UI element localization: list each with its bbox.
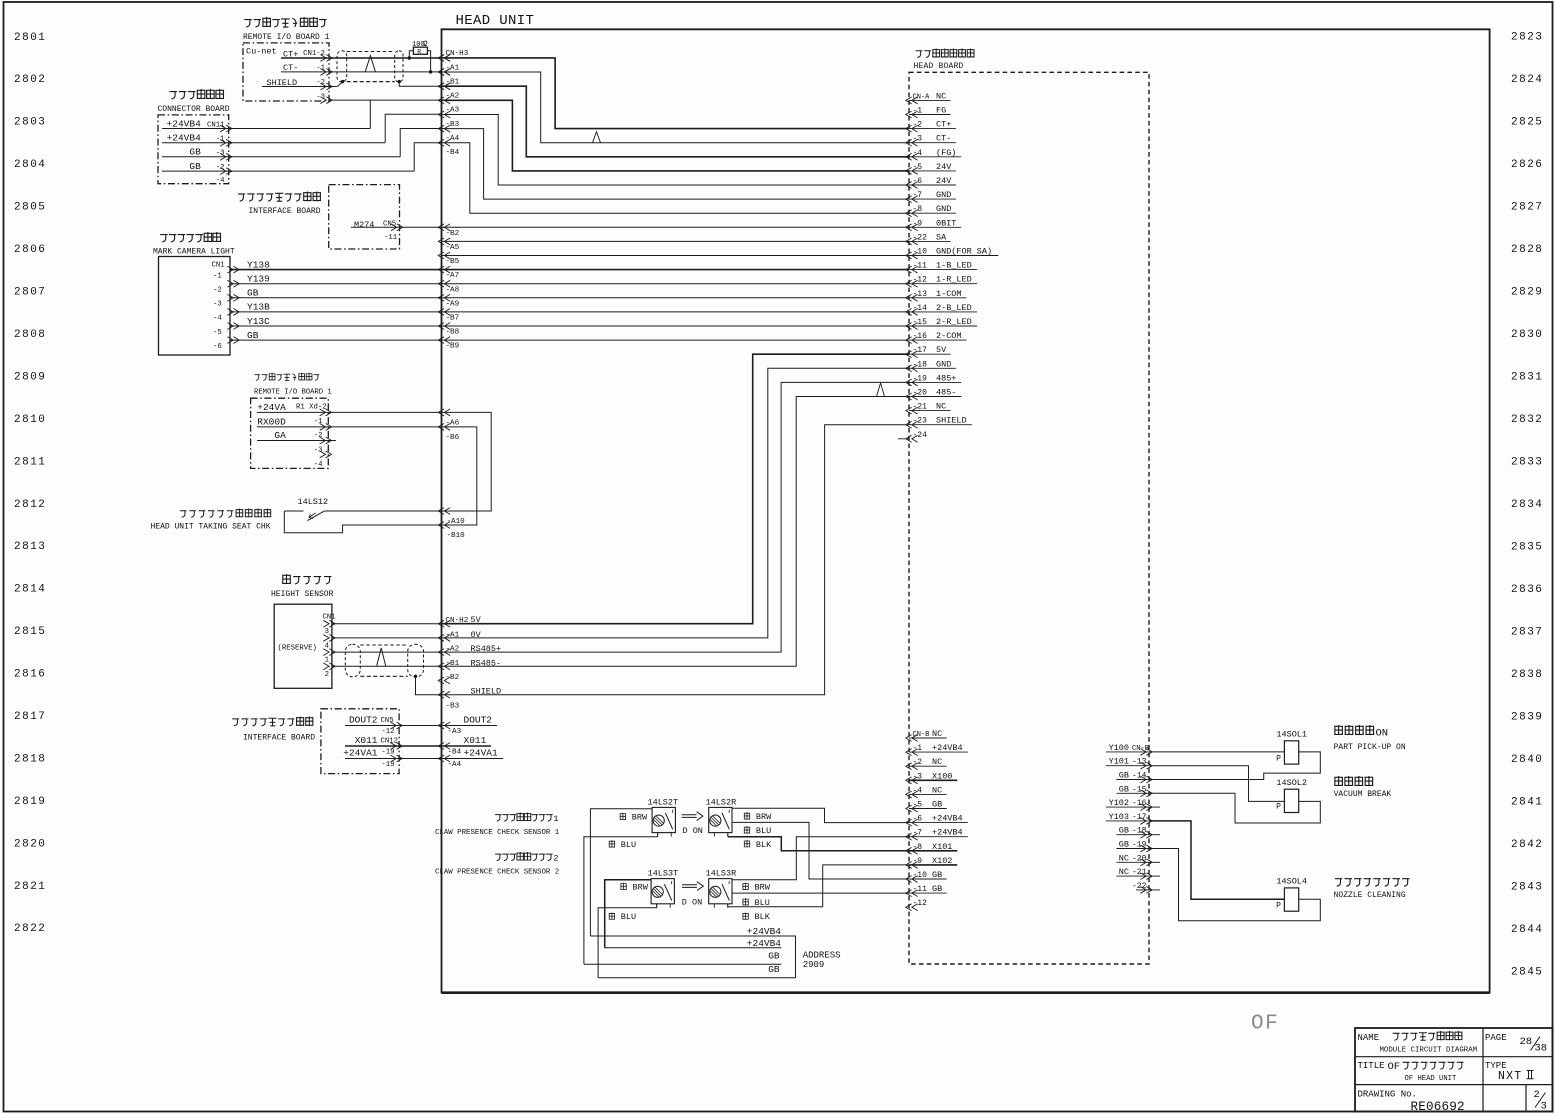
svg-text:-B6: -B6 <box>446 434 460 442</box>
svg-text:0BIT: 0BIT <box>936 218 956 228</box>
svg-text:CN1: CN1 <box>212 261 226 269</box>
connector CN-B pin rows (left side of head board) <box>906 735 918 742</box>
svg-text:NXT: NXT <box>1498 1070 1522 1083</box>
svg-text:2835: 2835 <box>1511 541 1543 553</box>
svg-text:+24VA1: +24VA1 <box>464 748 499 759</box>
svg-text:P: P <box>1276 803 1281 812</box>
svg-text:14LS2R: 14LS2R <box>706 797 737 807</box>
svg-text:X011: X011 <box>464 735 487 746</box>
svg-text:GA: GA <box>274 430 286 441</box>
height sensor pin 1 wire <box>332 651 442 653</box>
svg-text:BLU: BLU <box>621 912 636 922</box>
wire-cross hop on CT- run <box>593 132 601 143</box>
svg-text:CLAW PRESENCE CHECK SENSOR 1: CLAW PRESENCE CHECK SENSOR 1 <box>435 829 560 837</box>
left margin grid numbers 2801-2822 <box>14 32 46 935</box>
REMOTE I/O BOARD 1 (middle) labels <box>254 375 260 381</box>
connector CN-B pin rows (right side of head board) <box>1140 749 1152 756</box>
svg-text:BLK: BLK <box>756 840 772 850</box>
svg-text:GB: GB <box>1119 826 1129 836</box>
stub chevron -B2 <box>438 677 450 684</box>
REMOTE I/O BOARD 1 (top) labels <box>244 20 252 28</box>
svg-text:2803: 2803 <box>14 117 46 129</box>
wire 14LS2R BLK to CN-B -8 X101 <box>727 833 729 837</box>
svg-text:2831: 2831 <box>1511 371 1543 383</box>
svg-text:2839: 2839 <box>1511 711 1543 723</box>
svg-text:-A3: -A3 <box>446 107 460 115</box>
wire M274 to CN-A 0BIT <box>442 226 910 228</box>
svg-text:GB: GB <box>1119 784 1129 794</box>
svg-text:BLU: BLU <box>756 826 771 836</box>
svg-text:DOUT2: DOUT2 <box>464 715 493 726</box>
INTERFACE BOARD (upper) labels <box>238 194 245 201</box>
svg-text:2809: 2809 <box>14 371 46 383</box>
svg-text:-2: -2 <box>213 287 222 295</box>
twist crossover mark <box>377 648 386 666</box>
svg-text:CN-H3: CN-H3 <box>446 50 469 58</box>
svg-text:-A2: -A2 <box>446 93 460 101</box>
svg-text:GND: GND <box>936 359 951 369</box>
svg-text:PAGE: PAGE <box>1485 1033 1507 1043</box>
height sensor pin 2 wire <box>332 665 442 667</box>
height sensor pin 3 wire <box>332 623 442 625</box>
mark camera light box <box>159 257 231 356</box>
wire 14LS3R BRW to CN-B -7 <box>732 837 909 880</box>
svg-text:2838: 2838 <box>1511 669 1543 681</box>
svg-text:+24VB4: +24VB4 <box>932 828 963 838</box>
solenoid 14SOL1 body <box>1284 741 1298 764</box>
svg-text:+24VB4: +24VB4 <box>932 814 963 824</box>
svg-text:X011: X011 <box>355 735 378 746</box>
svg-text:+24VB4: +24VB4 <box>167 118 202 129</box>
svg-text:2: 2 <box>1534 1089 1540 1101</box>
svg-text:-12: -12 <box>913 899 928 908</box>
svg-text:D ON: D ON <box>683 826 703 836</box>
svg-text:24V: 24V <box>936 162 952 172</box>
svg-text:2833: 2833 <box>1511 456 1543 468</box>
svg-text:DOUT2: DOUT2 <box>349 715 378 726</box>
svg-text:2-COM: 2-COM <box>936 331 962 341</box>
svg-text:NC: NC <box>936 91 946 101</box>
remote I/O board (middle) dash-dot box <box>251 398 329 468</box>
svg-text:RS485+: RS485+ <box>471 644 502 654</box>
svg-text:HEAD UNIT: HEAD UNIT <box>456 13 535 29</box>
height sensor pin 4 wire <box>332 637 442 639</box>
address bracket <box>783 936 796 978</box>
svg-text:BRW: BRW <box>756 812 772 822</box>
part pick-up on labels <box>1334 725 1343 735</box>
connector board dash-dot box <box>158 115 229 184</box>
svg-text:GND(FOR SA): GND(FOR SA) <box>936 247 992 257</box>
wire SA row <box>442 240 910 242</box>
shield wire to head unit -B1 <box>399 82 441 86</box>
svg-text:HEAD BOARD: HEAD BOARD <box>914 62 964 71</box>
svg-text:-3: -3 <box>213 301 222 309</box>
svg-text:2817: 2817 <box>14 711 46 723</box>
svg-text:CT+: CT+ <box>936 120 951 130</box>
svg-text:-B7: -B7 <box>446 315 460 323</box>
14LS2T BRW label <box>620 813 626 820</box>
svg-text:HEAD UNIT TAKING SEAT CHK: HEAD UNIT TAKING SEAT CHK <box>151 523 271 532</box>
14LS2R BLK label <box>744 840 750 847</box>
svg-text:2837: 2837 <box>1511 626 1543 638</box>
svg-text:2-B_LED: 2-B_LED <box>936 303 972 313</box>
title block frame <box>1355 1028 1553 1112</box>
svg-text:2827: 2827 <box>1511 201 1543 213</box>
svg-text:2843: 2843 <box>1511 881 1543 893</box>
wire Y101 to 14SOL2 <box>1149 766 1284 802</box>
svg-text:-2: -2 <box>314 432 323 440</box>
svg-text:Y138: Y138 <box>247 259 270 270</box>
svg-text:-B4: -B4 <box>446 149 460 157</box>
solenoid 14SOL4 body <box>1284 888 1298 911</box>
svg-text:GND: GND <box>936 190 951 200</box>
svg-text:VACUUM BREAK: VACUUM BREAK <box>1334 790 1392 799</box>
svg-text:DRAWING No.: DRAWING No. <box>1358 1090 1417 1100</box>
svg-text:1: 1 <box>553 814 558 824</box>
svg-text:485-: 485- <box>936 388 956 398</box>
svg-text:FG: FG <box>936 106 946 116</box>
svg-text:GB: GB <box>247 330 259 341</box>
svg-text:2816: 2816 <box>14 669 46 681</box>
svg-text:SHIELD: SHIELD <box>936 416 967 426</box>
wire-cross hop on 485- run <box>877 383 885 397</box>
wire 14LS3R BLU to CN-B -11 <box>732 892 909 894</box>
claw presence check sensor 1 labels <box>495 815 501 821</box>
svg-text:M274: M274 <box>354 220 374 230</box>
svg-text:2814: 2814 <box>14 584 46 596</box>
svg-text:TITLE: TITLE <box>1358 1061 1385 1071</box>
wires CN-H3 group to CN-A (nested elbows) <box>442 58 910 129</box>
wire 14SOL2 return to GB -15 <box>1149 793 1320 823</box>
wire +24VB4 to head unit <box>370 100 441 128</box>
svg-text:Y101: Y101 <box>1109 757 1129 767</box>
svg-text:Cu-net: Cu-net <box>246 47 277 57</box>
HEAD UNIT enclosure box <box>442 29 1490 992</box>
svg-text:-24: -24 <box>913 431 928 440</box>
svg-text:CN12: CN12 <box>381 738 399 746</box>
svg-text:2825: 2825 <box>1511 116 1543 128</box>
wire 14LS3R BLK to CN-B -9 X102 <box>727 904 729 907</box>
svg-text:SA: SA <box>936 232 947 242</box>
svg-text:2821: 2821 <box>14 881 46 893</box>
svg-text:4: 4 <box>325 642 330 650</box>
junction dot CT- / R <box>429 70 432 73</box>
svg-text:+24VB4: +24VB4 <box>932 743 963 753</box>
svg-text:GB: GB <box>932 884 942 894</box>
svg-text:2820: 2820 <box>14 838 46 850</box>
twisted pair cable symbol (Cu-net) <box>337 51 347 82</box>
svg-text:RX00D: RX00D <box>257 416 286 427</box>
svg-text:0V: 0V <box>471 630 482 640</box>
svg-text:-3: -3 <box>314 447 323 455</box>
svg-text:5V: 5V <box>936 345 947 355</box>
HEIGHT SENSOR labels <box>282 574 291 584</box>
svg-text:-6: -6 <box>213 343 222 351</box>
svg-text:GB: GB <box>1119 840 1129 850</box>
svg-text:2806: 2806 <box>14 244 46 256</box>
svg-text:2822: 2822 <box>14 923 46 935</box>
HEAD BOARD dashed enclosure <box>909 72 1149 964</box>
svg-text:P: P <box>1276 901 1281 910</box>
svg-text:(FG): (FG) <box>936 148 956 158</box>
svg-text:2: 2 <box>553 854 558 864</box>
14LS3R BLU label <box>742 898 748 905</box>
svg-text:-1: -1 <box>213 272 222 280</box>
svg-text:14SOL2: 14SOL2 <box>1276 778 1307 788</box>
INTERFACE BOARD (lower) labels <box>232 719 239 726</box>
stub wires on unused CN-B right pins <box>1149 806 1160 808</box>
svg-text:OF: OF <box>1388 1061 1401 1073</box>
vacuum break labels <box>1334 776 1343 786</box>
svg-text:1-COM: 1-COM <box>936 289 962 299</box>
wire 14LS2R BLU to CN-B -10 <box>732 822 909 879</box>
resistor leads <box>409 51 413 58</box>
connector CN-H3 pin rows on head unit edge <box>438 55 450 62</box>
svg-text:-B9: -B9 <box>446 343 460 351</box>
svg-text:GB: GB <box>932 800 942 810</box>
wire GB to head unit <box>414 143 441 171</box>
svg-text:NC: NC <box>1119 867 1129 877</box>
svg-text:2826: 2826 <box>1511 159 1543 171</box>
svg-text:GND: GND <box>936 204 951 214</box>
svg-text:-A4: -A4 <box>448 761 462 769</box>
svg-text:2836: 2836 <box>1511 584 1543 596</box>
svg-text:-A6: -A6 <box>446 419 460 427</box>
svg-text:-19: -19 <box>381 749 394 757</box>
svg-text:14SOL4: 14SOL4 <box>1276 877 1307 887</box>
svg-text:-B3: -B3 <box>446 703 460 711</box>
svg-text:14LS3T: 14LS3T <box>648 869 679 879</box>
svg-text:2807: 2807 <box>14 287 46 299</box>
svg-text:-B8: -B8 <box>446 329 460 337</box>
svg-text:2: 2 <box>325 671 329 679</box>
svg-text:24V: 24V <box>936 176 952 186</box>
wire GB to head unit <box>400 129 441 157</box>
wire RX00D loop to 14LS12 <box>442 427 477 525</box>
svg-text:-A9: -A9 <box>446 300 460 308</box>
svg-text:GB: GB <box>768 951 780 962</box>
wires mark camera rows to CN-A LED pins <box>230 269 909 271</box>
svg-text:REMOTE I/O BOARD 1: REMOTE I/O BOARD 1 <box>243 33 330 42</box>
svg-text:CONNECTOR BOARD: CONNECTOR BOARD <box>158 105 230 114</box>
shield junction dot <box>414 675 417 678</box>
svg-text:14LS2T: 14LS2T <box>648 797 679 807</box>
wires CN-H2 to CN-A 5V/GND/485/SHIELD <box>442 354 910 624</box>
head board label JP (hedo kino kiban) <box>916 51 923 58</box>
twist crossover mark <box>365 56 375 72</box>
svg-text:2841: 2841 <box>1511 796 1543 808</box>
svg-text:2830: 2830 <box>1511 329 1543 341</box>
svg-text:Y100: Y100 <box>1109 743 1129 753</box>
svg-text:-19: -19 <box>381 761 394 769</box>
svg-text:+24VB4: +24VB4 <box>747 926 782 937</box>
svg-text:2805: 2805 <box>14 202 46 214</box>
svg-text:-12: -12 <box>381 728 394 736</box>
svg-text:485+: 485+ <box>936 373 956 383</box>
svg-text:-B2: -B2 <box>446 230 460 238</box>
wire 14LS2T BLU to GB address line <box>657 833 659 837</box>
svg-text:GB: GB <box>189 147 201 158</box>
MARK CAMERA LIGHT labels <box>160 235 168 243</box>
solenoid 14SOL2 body <box>1284 789 1298 812</box>
14LS3T BRW label <box>620 883 626 890</box>
svg-text:2909: 2909 <box>803 960 825 970</box>
wire 14LS3T BLU to GB address line 2 <box>656 904 658 908</box>
svg-text:HEIGHT SENSOR: HEIGHT SENSOR <box>271 590 334 599</box>
junction dot CT+ / R <box>408 56 411 59</box>
svg-text:NC: NC <box>932 729 942 739</box>
claw presence check sensor 2 labels <box>495 854 501 860</box>
svg-text:1-R_LED: 1-R_LED <box>936 275 972 285</box>
svg-text:2811: 2811 <box>14 456 46 468</box>
svg-text:Y103: Y103 <box>1109 812 1129 822</box>
svg-text:NC: NC <box>932 757 942 767</box>
svg-text:ON: ON <box>1376 728 1389 740</box>
svg-text:BRW: BRW <box>632 812 648 822</box>
svg-text:-4: -4 <box>216 177 225 185</box>
svg-text:NC: NC <box>932 785 942 795</box>
svg-text:-B1: -B1 <box>446 78 460 86</box>
shield drain junction dots <box>341 80 344 83</box>
nozzle cleaning labels <box>1335 879 1343 887</box>
svg-text:2828: 2828 <box>1511 244 1543 256</box>
svg-text:GB: GB <box>1119 771 1129 781</box>
svg-text:INTERFACE BOARD: INTERFACE BOARD <box>243 734 315 743</box>
wire 14LS3T BRW to +24VB4 address line 2 <box>605 880 651 948</box>
wire GND(FOR SA) row <box>442 255 910 257</box>
wire Y103 to 14SOL4 <box>1149 821 1284 899</box>
optical beam arrow <box>682 812 703 821</box>
svg-text:2808: 2808 <box>14 329 46 341</box>
svg-text:MARK CAMERA LIGHT: MARK CAMERA LIGHT <box>153 248 235 257</box>
svg-text:NC: NC <box>936 402 946 412</box>
svg-text:2815: 2815 <box>14 626 46 638</box>
svg-text:PART PICK-UP ON: PART PICK-UP ON <box>1334 743 1406 752</box>
wire +24VA loop to 14LS12 <box>442 412 492 511</box>
svg-text:2-R_LED: 2-R_LED <box>936 317 972 327</box>
svg-text:-A1: -A1 <box>446 64 460 72</box>
svg-text:3: 3 <box>1541 1101 1547 1113</box>
head unit taking seat chk labels <box>180 511 187 518</box>
svg-text:1: 1 <box>325 657 330 665</box>
svg-text:CN1-2: CN1-2 <box>303 50 325 58</box>
wire 14LS2R BRW to CN-B -6 <box>732 808 909 822</box>
svg-text:GB: GB <box>189 161 201 172</box>
svg-text:1-B_LED: 1-B_LED <box>936 261 972 271</box>
resistor R body <box>413 47 427 54</box>
connector CN-A pin rows on head board <box>906 97 918 104</box>
svg-text:+24VA1: +24VA1 <box>343 748 378 759</box>
14LS3R BLK label <box>742 913 748 920</box>
svg-text:+24VA: +24VA <box>257 402 286 413</box>
14LS2R BLU label <box>744 826 750 833</box>
svg-text:-11: -11 <box>384 234 398 242</box>
14LS3R BRW label <box>742 883 748 890</box>
svg-text:2829: 2829 <box>1511 286 1543 298</box>
svg-text:BRW: BRW <box>633 882 649 892</box>
svg-text:-B10: -B10 <box>447 532 466 540</box>
interface board lower dash-dot box <box>321 709 399 774</box>
svg-text:-A7: -A7 <box>446 272 460 280</box>
svg-text:BLK: BLK <box>755 912 771 922</box>
wire Y100 to 14SOL1 <box>1149 751 1284 753</box>
svg-text:NC: NC <box>1119 853 1129 863</box>
svg-text:-A3: -A3 <box>448 728 462 736</box>
svg-text:NAME: NAME <box>1358 1033 1380 1043</box>
svg-text:2842: 2842 <box>1511 839 1543 851</box>
svg-text:-B2: -B2 <box>446 674 460 682</box>
svg-text:RE06692: RE06692 <box>1411 1100 1465 1114</box>
svg-text:BLU: BLU <box>621 840 636 850</box>
svg-text:Y139: Y139 <box>247 274 270 285</box>
svg-text:BRW: BRW <box>755 882 771 892</box>
svg-text:-A5: -A5 <box>446 244 460 252</box>
limit switch 14LS12 contact <box>324 510 441 512</box>
14LS2T BLU label <box>609 840 615 847</box>
svg-text:INTERFACE BOARD: INTERFACE BOARD <box>249 207 321 216</box>
remote I/O board 1 dash-dot box <box>243 43 329 101</box>
svg-text:REMOTE I/O BOARD 1: REMOTE I/O BOARD 1 <box>254 389 332 397</box>
svg-text:2802: 2802 <box>14 74 46 86</box>
svg-text:-A8: -A8 <box>446 286 460 294</box>
svg-text:14LS3R: 14LS3R <box>706 869 737 879</box>
svg-text:38: 38 <box>1535 1043 1548 1055</box>
svg-text:2844: 2844 <box>1511 924 1543 936</box>
svg-text:-4: -4 <box>213 315 222 323</box>
svg-text:2812: 2812 <box>14 499 46 511</box>
svg-text:Y13C: Y13C <box>247 316 270 327</box>
svg-text:14LS12: 14LS12 <box>298 497 329 507</box>
svg-text:-B3: -B3 <box>446 121 460 129</box>
svg-text:-A4: -A4 <box>446 135 460 143</box>
svg-text:2810: 2810 <box>14 414 46 426</box>
svg-text:14SOL1: 14SOL1 <box>1276 730 1307 740</box>
svg-text:+24VB4: +24VB4 <box>167 133 202 144</box>
svg-text:2804: 2804 <box>14 159 46 171</box>
shield wire to -B3 <box>416 677 442 695</box>
svg-text:CT-: CT- <box>936 134 951 144</box>
svg-text:ADDRESS: ADDRESS <box>803 951 841 961</box>
twisted pair cable symbol (RS485) <box>345 644 360 677</box>
svg-text:GB: GB <box>768 964 780 975</box>
svg-text:3: 3 <box>325 628 329 636</box>
14LS2R BRW label <box>744 812 750 819</box>
interface board dash-dot box <box>329 185 400 249</box>
height sensor box <box>274 604 332 688</box>
svg-text:2824: 2824 <box>1511 74 1543 86</box>
wire 14SOL1 return to GB -14 <box>1149 752 1320 780</box>
svg-text:NOZZLE CLEANING: NOZZLE CLEANING <box>1334 891 1406 900</box>
svg-text:2840: 2840 <box>1511 754 1543 766</box>
svg-text:OF: OF <box>1251 1013 1279 1036</box>
svg-text:28: 28 <box>1520 1036 1533 1048</box>
CONNECTOR BOARD labels <box>169 92 177 100</box>
svg-text:P: P <box>1276 754 1281 763</box>
svg-text:GB: GB <box>932 870 942 880</box>
svg-text:2832: 2832 <box>1511 414 1543 426</box>
svg-text:R: R <box>417 48 421 55</box>
wire +24VB4 to head unit <box>385 114 441 143</box>
right margin grid numbers 2823-2845 <box>1511 31 1543 978</box>
svg-text:-5: -5 <box>213 329 222 337</box>
svg-text:2845: 2845 <box>1511 966 1543 978</box>
svg-text:2819: 2819 <box>14 796 46 808</box>
svg-text:2834: 2834 <box>1511 499 1543 511</box>
svg-text:CLAW PRESENCE CHECK SENSOR 2: CLAW PRESENCE CHECK SENSOR 2 <box>435 868 559 876</box>
svg-text:CN5: CN5 <box>381 717 394 725</box>
svg-text:Y102: Y102 <box>1109 798 1129 808</box>
svg-text:-4: -4 <box>314 461 323 469</box>
